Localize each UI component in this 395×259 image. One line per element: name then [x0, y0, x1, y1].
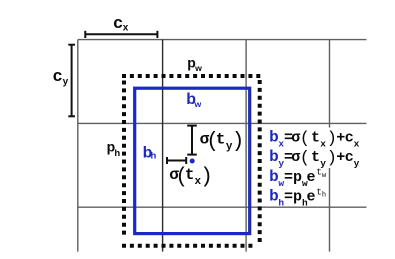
- svg-text:b: b: [269, 129, 279, 147]
- svg-text:b: b: [269, 148, 279, 166]
- svg-text:(: (: [300, 149, 310, 168]
- svg-text:t: t: [216, 131, 226, 149]
- svg-text:h: h: [114, 148, 120, 159]
- svg-text:h: h: [151, 150, 157, 161]
- svg-text:e: e: [307, 189, 316, 206]
- svg-text:w: w: [194, 63, 202, 73]
- svg-text:x: x: [123, 23, 129, 34]
- svg-text:c: c: [345, 130, 354, 147]
- svg-text:c: c: [53, 66, 62, 85]
- svg-text:t: t: [311, 130, 320, 147]
- svg-text:c: c: [345, 149, 354, 166]
- svg-text:e: e: [307, 169, 316, 186]
- svg-text:p: p: [293, 169, 302, 186]
- svg-text:y: y: [354, 158, 360, 169]
- svg-text:x: x: [320, 138, 326, 149]
- svg-text:b: b: [269, 168, 279, 186]
- svg-text:): ): [232, 130, 245, 153]
- svg-text:): ): [200, 166, 213, 189]
- svg-text:=: =: [284, 169, 293, 186]
- svg-text:h: h: [322, 192, 326, 200]
- svg-text:t: t: [185, 166, 195, 184]
- svg-text:(: (: [300, 129, 310, 148]
- svg-text:w: w: [194, 99, 202, 109]
- svg-text:c: c: [113, 13, 122, 32]
- svg-text:b: b: [269, 188, 279, 206]
- svg-text:x: x: [354, 138, 360, 149]
- svg-text:=: =: [284, 189, 293, 206]
- svg-text:t: t: [311, 149, 320, 166]
- svg-text:p: p: [293, 189, 302, 206]
- svg-text:y: y: [63, 77, 69, 88]
